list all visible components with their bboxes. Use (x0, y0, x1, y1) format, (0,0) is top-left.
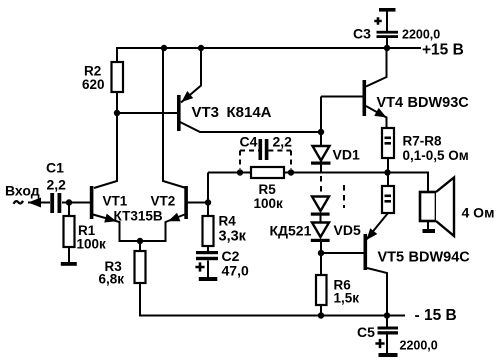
svg-text:VD1: VD1 (333, 147, 360, 163)
svg-text:2,2: 2,2 (47, 177, 67, 193)
svg-text:+15 В: +15 В (422, 42, 464, 59)
svg-text:C1: C1 (46, 160, 64, 176)
svg-text:VT4: VT4 (377, 95, 404, 111)
svg-text:Вход: Вход (5, 183, 40, 199)
svg-text:1,5к: 1,5к (334, 291, 360, 306)
svg-text:620: 620 (82, 77, 105, 92)
svg-text:VT5: VT5 (378, 250, 405, 266)
svg-text:BDW93C: BDW93C (408, 95, 470, 111)
svg-text:4 Ом: 4 Ом (462, 205, 495, 221)
svg-text:2200,0: 2200,0 (402, 28, 440, 42)
svg-text:100к: 100к (254, 196, 284, 211)
svg-text:2200,0: 2200,0 (400, 339, 438, 353)
svg-text:R7-R8: R7-R8 (403, 134, 443, 149)
svg-text:VT1: VT1 (103, 194, 128, 209)
svg-text:2,2: 2,2 (273, 134, 293, 150)
svg-text:C3: C3 (353, 26, 371, 42)
svg-text:VT2: VT2 (151, 194, 176, 209)
svg-text:BDW94C: BDW94C (409, 250, 471, 266)
svg-text:100к: 100к (77, 237, 107, 252)
svg-text:VT3: VT3 (192, 104, 220, 121)
svg-text:0,1-0,5 Ом: 0,1-0,5 Ом (403, 148, 469, 163)
svg-text:47,0: 47,0 (222, 263, 249, 279)
svg-text:КД521: КД521 (270, 223, 312, 239)
svg-text:R4: R4 (219, 214, 237, 229)
svg-text:- 15 В: - 15 В (415, 307, 457, 324)
svg-text:3,3к: 3,3к (219, 229, 247, 245)
svg-text:C4: C4 (240, 134, 258, 150)
svg-text:КТ315В: КТ315В (114, 209, 163, 224)
svg-text:C5: C5 (357, 324, 375, 340)
svg-text:VD5: VD5 (334, 222, 361, 238)
svg-text:6,8к: 6,8к (99, 272, 125, 287)
svg-text:R5: R5 (259, 182, 277, 197)
svg-text:К814А: К814А (227, 104, 272, 121)
